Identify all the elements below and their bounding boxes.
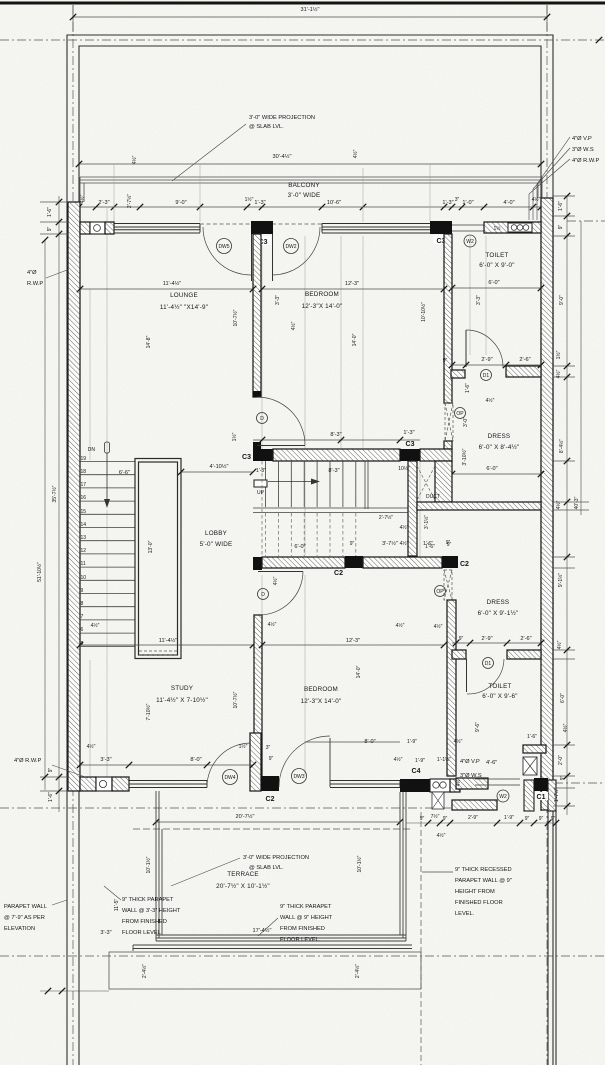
svg-text:W2: W2 <box>499 794 507 800</box>
svg-text:D: D <box>261 592 265 598</box>
svg-text:3'-0" WIDE PROJECTION: 3'-0" WIDE PROJECTION <box>243 855 309 861</box>
svg-text:D1: D1 <box>485 661 492 667</box>
svg-text:TERRACE: TERRACE <box>227 871 259 878</box>
left exterior wall <box>68 202 80 791</box>
column C3 (top toilet) <box>430 221 452 234</box>
svg-text:6'-0" X 8'-4½": 6'-0" X 8'-4½" <box>479 443 520 451</box>
heavy top border line <box>0 2 605 5</box>
wall bedroom1/toilet1 divider <box>444 234 452 403</box>
parapet wall west <box>133 791 412 951</box>
svg-text:14'-0": 14'-0" <box>352 333 358 346</box>
svg-text:9: 9 <box>81 588 84 594</box>
svg-text:8: 8 <box>81 601 84 607</box>
svg-text:4½": 4½" <box>394 756 403 763</box>
toilet1 north wall with vent fixtures <box>484 222 541 233</box>
svg-text:FINISHED FLOOR: FINISHED FLOOR <box>455 900 503 906</box>
svg-text:STUDY: STUDY <box>171 685 194 692</box>
dimension 30'-4 1/2" <box>79 163 541 165</box>
svg-text:1'-3": 1'-3" <box>403 430 414 436</box>
svg-text:DRESS: DRESS <box>488 433 511 440</box>
svg-text:12: 12 <box>81 548 87 554</box>
svg-text:17: 17 <box>81 482 87 488</box>
svg-text:6'-0" X 9'-0": 6'-0" X 9'-0" <box>479 262 514 269</box>
wall below OP <box>444 441 452 449</box>
svg-text:4½": 4½" <box>131 155 138 164</box>
svg-text:3'-1½": 3'-1½" <box>423 515 430 529</box>
svg-text:2'-7½": 2'-7½" <box>379 514 393 521</box>
svg-text:BALCONY: BALCONY <box>288 182 320 189</box>
svg-text:4"Ø: 4"Ø <box>27 270 37 276</box>
svg-text:OP: OP <box>436 589 444 595</box>
svg-text:DRESS: DRESS <box>487 599 510 606</box>
svg-text:C1: C1 <box>537 794 546 801</box>
svg-text:3'-3": 3'-3" <box>100 930 111 936</box>
svg-text:4½": 4½" <box>437 832 446 839</box>
svg-text:51'-10½": 51'-10½" <box>36 562 43 582</box>
svg-text:12'-3"X 14'-0": 12'-3"X 14'-0" <box>301 698 342 705</box>
dimension 31'-1 1/2" top <box>73 5 547 32</box>
svg-text:ELEVATION: ELEVATION <box>4 926 35 932</box>
svg-text:10: 10 <box>81 575 87 581</box>
svg-text:2'-6": 2'-6" <box>520 636 531 642</box>
column C2 (east) <box>442 556 458 568</box>
svg-text:4"Ø R.W.P: 4"Ø R.W.P <box>14 758 42 764</box>
svg-text:10'-1½": 10'-1½" <box>145 856 152 873</box>
svg-text:9": 9" <box>446 540 451 546</box>
svg-text:3'-0" WIDE: 3'-0" WIDE <box>288 192 321 199</box>
svg-text:15: 15 <box>81 509 87 515</box>
wall below door (lobby/bedroom2) <box>254 615 262 777</box>
light extension lines <box>90 164 486 790</box>
svg-text:9": 9" <box>443 358 448 364</box>
svg-text:LEVEL.: LEVEL. <box>455 911 475 917</box>
opening OP dress2 <box>444 570 452 600</box>
window bedroom2 <box>330 781 400 788</box>
svg-text:3": 3" <box>455 197 460 203</box>
fixture box <box>96 777 112 791</box>
svg-text:6'-0": 6'-0" <box>488 280 499 286</box>
svg-text:14'-8": 14'-8" <box>146 335 152 348</box>
svg-text:1'-6": 1'-6" <box>48 792 54 802</box>
svg-text:8'-3": 8'-3" <box>328 468 339 474</box>
svg-text:1'-9": 1'-9" <box>407 739 417 745</box>
top wall segment left <box>80 222 90 234</box>
svg-text:20'-7½": 20'-7½" <box>236 813 255 820</box>
svg-text:4½": 4½" <box>400 540 409 547</box>
wall lounge/bedroom divider <box>253 234 261 397</box>
svg-text:C3: C3 <box>406 441 415 448</box>
svg-text:13'-0": 13'-0" <box>148 540 154 553</box>
landing <box>253 507 408 509</box>
svg-text:3'-0" WIDE PROJECTION: 3'-0" WIDE PROJECTION <box>249 115 315 121</box>
svg-text:3'-10½": 3'-10½" <box>461 448 468 465</box>
balcony slab edge lines <box>80 177 542 202</box>
svg-text:9": 9" <box>459 636 464 642</box>
svg-text:DUCT: DUCT <box>426 494 440 500</box>
svg-text:1'-6": 1'-6" <box>47 207 53 217</box>
svg-text:16: 16 <box>81 495 87 501</box>
svg-text:12'-3": 12'-3" <box>346 638 360 644</box>
svg-text:4½": 4½" <box>562 723 569 732</box>
svg-text:4½": 4½" <box>434 623 443 630</box>
bottom slab rectangle <box>109 952 421 989</box>
fixture box with circles <box>430 779 450 792</box>
svg-text:W2: W2 <box>466 239 474 245</box>
svg-text:2'-9": 2'-9" <box>468 815 478 821</box>
svg-text:2'-3": 2'-3" <box>98 200 109 206</box>
notes terrace <box>104 886 121 900</box>
svg-text:7½": 7½" <box>431 813 440 820</box>
svg-text:12'-3": 12'-3" <box>345 281 359 287</box>
column C1 <box>524 780 534 811</box>
column C3 (stair) <box>253 449 273 461</box>
svg-text:1'-6": 1'-6" <box>423 541 433 547</box>
toilet2 east jog wall <box>523 745 546 753</box>
svg-text:1'-6": 1'-6" <box>527 734 537 740</box>
svg-text:11'-5": 11'-5" <box>114 899 120 912</box>
column C2 bottom <box>261 776 279 791</box>
svg-text:9": 9" <box>350 541 355 547</box>
svg-text:8'-0": 8'-0" <box>364 739 375 745</box>
svg-text:D: D <box>260 416 264 422</box>
wall dress2/toilet2 west <box>447 600 456 776</box>
door DW2 tag <box>284 239 299 254</box>
svg-text:11'-4½" "X14'-9": 11'-4½" "X14'-9" <box>160 303 208 311</box>
svg-text:8'-4½": 8'-4½" <box>558 439 565 453</box>
dim ticks bottom left slab <box>40 990 109 992</box>
svg-text:4½": 4½" <box>486 397 495 404</box>
toilet1 door dims <box>452 364 541 366</box>
svg-text:3'-3": 3'-3" <box>476 295 482 305</box>
svg-text:FLOOR LEVEL.: FLOOR LEVEL. <box>280 937 321 943</box>
svg-text:4"Ø R.W.P: 4"Ø R.W.P <box>572 158 600 164</box>
svg-text:4½": 4½" <box>87 743 96 750</box>
svg-text:1'-6": 1'-6" <box>465 383 471 393</box>
svg-text:PARAPET WALL: PARAPET WALL <box>4 904 47 910</box>
svg-text:4"Ø V.P: 4"Ø V.P <box>572 136 592 142</box>
column C2 <box>345 556 363 568</box>
svg-text:LOBBY: LOBBY <box>205 530 228 537</box>
svg-text:9'-0": 9'-0" <box>175 200 186 206</box>
svg-text:18: 18 <box>81 469 87 475</box>
svg-text:2'-7½": 2'-7½" <box>126 194 133 208</box>
svg-text:8'-0": 8'-0" <box>190 757 201 763</box>
dim 8'-3" above band <box>253 439 420 441</box>
svg-text:1'-7½": 1'-7½" <box>553 788 560 802</box>
lower dashed flight <box>262 461 356 556</box>
svg-text:@ 7'-9" AS PER: @ 7'-9" AS PER <box>4 915 45 921</box>
svg-text:1½: 1½ <box>494 225 502 232</box>
wall lobby north <box>273 449 400 461</box>
svg-text:6: 6 <box>81 627 84 633</box>
svg-text:2'-4½": 2'-4½" <box>354 964 361 978</box>
svg-text:DN: DN <box>88 447 96 453</box>
svg-text:9": 9" <box>551 816 556 822</box>
svg-text:TOILET: TOILET <box>488 683 511 690</box>
svg-text:1'-9": 1'-9" <box>504 815 514 821</box>
svg-text:LOUNGE: LOUNGE <box>170 292 198 299</box>
svg-text:9": 9" <box>420 816 425 822</box>
svg-text:2'-0": 2'-0" <box>558 755 564 765</box>
stair tread numbers <box>81 456 87 647</box>
svg-text:6'-0" X 9'-6": 6'-0" X 9'-6" <box>482 693 517 700</box>
left margin chain <box>40 196 68 812</box>
svg-text:9'-1½": 9'-1½" <box>557 573 564 587</box>
svg-text:BEDROOM: BEDROOM <box>304 686 338 693</box>
svg-text:11'-4½": 11'-4½" <box>163 280 182 287</box>
svg-text:1'-3": 1'-3" <box>442 200 453 206</box>
svg-text:30'-4½": 30'-4½" <box>273 153 292 160</box>
svg-text:FROM FINISHED: FROM FINISHED <box>122 919 167 925</box>
window W2 tag <box>464 235 476 247</box>
recessed parapet verticals bottom right <box>420 812 422 1065</box>
svg-text:4½": 4½" <box>91 622 100 629</box>
svg-text:DW3: DW3 <box>293 774 304 780</box>
duct dashed <box>417 466 435 500</box>
wall lobby east / duct <box>408 461 417 556</box>
svg-text:FLOOR LEVEL: FLOOR LEVEL <box>122 930 161 936</box>
UP flight treads <box>266 461 369 509</box>
svg-text:3"Ø W.S: 3"Ø W.S <box>572 147 594 153</box>
svg-text:11: 11 <box>81 561 86 567</box>
door DW3 arc + leaf <box>279 736 330 787</box>
svg-text:6'-0": 6'-0" <box>294 544 305 550</box>
svg-text:2'-9": 2'-9" <box>481 357 492 363</box>
svg-text:C3: C3 <box>242 454 251 461</box>
wall bedroom2 north <box>262 557 345 568</box>
door DW4 arc <box>207 743 251 787</box>
stair well <box>135 459 181 659</box>
recessed band below <box>452 800 497 810</box>
dim 20'-7 1/2" <box>156 821 400 823</box>
svg-text:7: 7 <box>81 614 84 620</box>
svg-text:4½": 4½" <box>555 369 562 378</box>
svg-text:9": 9" <box>443 816 448 822</box>
svg-text:14: 14 <box>81 522 87 528</box>
svg-text:4"Ø V.P: 4"Ø V.P <box>460 759 480 765</box>
column C4 <box>400 779 430 792</box>
svg-text:10'-7½": 10'-7½" <box>232 691 239 708</box>
svg-text:WALL @ 9" HEIGHT: WALL @ 9" HEIGHT <box>280 915 333 921</box>
door D (lounge) leaf + arc <box>253 442 261 449</box>
svg-text:TOILET: TOILET <box>485 252 508 259</box>
bottom-left corner wall <box>80 777 96 791</box>
svg-text:9'-6": 9'-6" <box>475 722 481 732</box>
svg-text:HEIGHT FROM: HEIGHT FROM <box>455 889 495 895</box>
svg-text:14'-0": 14'-0" <box>356 665 362 678</box>
svg-text:3": 3" <box>266 745 271 751</box>
svg-text:8'-3": 8'-3" <box>330 432 341 438</box>
toilet2 south band <box>456 778 488 789</box>
svg-text:11'-4½": 11'-4½" <box>159 637 178 644</box>
svg-text:@ SLAB LVL.: @ SLAB LVL. <box>249 124 284 130</box>
svg-text:4½": 4½" <box>400 524 409 531</box>
svg-text:9" THICK PARAPET: 9" THICK PARAPET <box>280 904 332 910</box>
svg-text:6'-0": 6'-0" <box>486 466 497 472</box>
svg-text:3'-3": 3'-3" <box>275 295 281 305</box>
svg-text:UP: UP <box>257 490 265 496</box>
door D bedroom2 leaf + arc <box>258 571 303 573</box>
svg-text:6'-0" X 9'-1½": 6'-0" X 9'-1½" <box>478 609 519 617</box>
svg-text:4½": 4½" <box>532 196 541 203</box>
svg-text:9": 9" <box>525 816 530 822</box>
shaft box with X <box>523 757 537 775</box>
stair treads (left flight) <box>80 462 135 647</box>
svg-text:4½": 4½" <box>396 622 405 629</box>
svg-text:3"Ø W.S: 3"Ø W.S <box>460 773 482 779</box>
svg-text:1'-0": 1'-0" <box>462 200 473 206</box>
toilet2 north wall + door D1 <box>452 650 466 659</box>
top wall fixture box <box>90 222 105 234</box>
svg-text:4'-6": 4'-6" <box>486 760 497 766</box>
wall <box>363 557 442 568</box>
svg-text:OP: OP <box>456 411 464 417</box>
column C3 (top-left of bedroom) <box>251 221 273 234</box>
svg-text:DW5: DW5 <box>218 244 229 250</box>
wall stub study east <box>250 733 261 791</box>
svg-text:4½": 4½" <box>352 149 359 158</box>
svg-text:1½": 1½" <box>239 743 248 750</box>
svg-text:10'-7½": 10'-7½" <box>232 309 239 326</box>
svg-text:BEDROOM: BEDROOM <box>305 291 339 298</box>
svg-text:4½": 4½" <box>555 500 562 509</box>
svg-text:PARAPET WALL @ 9": PARAPET WALL @ 9" <box>455 878 512 884</box>
svg-text:17'-4½": 17'-4½" <box>253 927 272 934</box>
terrace north dashed <box>133 828 412 830</box>
svg-text:6'-0": 6'-0" <box>560 693 566 703</box>
wall duct top <box>420 449 452 461</box>
svg-text:@ SLAB LVL.: @ SLAB LVL. <box>249 865 284 871</box>
svg-text:7'-10½": 7'-10½" <box>145 703 152 720</box>
window W top-left 9'-0" <box>114 224 200 234</box>
svg-text:11'-4½" X 7-10½": 11'-4½" X 7-10½" <box>156 696 208 704</box>
right margin chain <box>553 196 589 815</box>
svg-text:19: 19 <box>81 456 87 462</box>
svg-text:C4: C4 <box>412 768 421 775</box>
svg-text:13: 13 <box>81 535 87 541</box>
door DW5 tag <box>217 239 232 254</box>
svg-text:9": 9" <box>48 768 54 773</box>
svg-text:1½": 1½" <box>555 350 562 359</box>
svg-text:4'-10½": 4'-10½" <box>210 463 229 470</box>
svg-text:10'-6": 10'-6" <box>327 200 341 206</box>
opening OP dress1 (dashed) <box>445 403 453 441</box>
door opening dashed (top) <box>200 223 322 225</box>
bedroom2 dim 12'-3" <box>262 644 444 646</box>
svg-text:DW2: DW2 <box>285 244 296 250</box>
svg-text:1½": 1½" <box>245 196 254 203</box>
svg-text:3'-0": 3'-0" <box>463 417 469 427</box>
svg-text:C2: C2 <box>460 561 469 568</box>
svg-text:FROM FINISHED: FROM FINISHED <box>280 926 325 932</box>
svg-text:20'-7½" X 10'-1½": 20'-7½" X 10'-1½" <box>216 882 270 890</box>
door DW5 leaf and arc <box>251 234 253 281</box>
right exterior wall <box>541 198 553 810</box>
svg-text:1'-1½": 1'-1½" <box>437 756 451 763</box>
wall segment <box>450 779 460 792</box>
svg-text:9": 9" <box>560 776 566 781</box>
svg-text:9'-0": 9'-0" <box>559 295 565 305</box>
W2 opening lower <box>475 779 520 785</box>
svg-text:C2: C2 <box>334 570 343 577</box>
svg-text:1'-3": 1'-3" <box>256 468 266 474</box>
svg-text:4'-0": 4'-0" <box>503 200 514 206</box>
plot boundary wall double lines <box>67 35 556 1065</box>
svg-text:5'-0" WIDE: 5'-0" WIDE <box>200 541 233 548</box>
toilet1 south wall + door D1 <box>451 370 465 378</box>
window study 8'-0" <box>129 781 207 788</box>
svg-text:6'-6": 6'-6" <box>119 470 130 476</box>
dim 11'-4 1/2" stair bottom <box>80 644 253 646</box>
lounge/bedroom dims <box>80 288 253 290</box>
dim 4'-10 1/2" lobby <box>181 471 253 473</box>
note projection <box>171 858 240 886</box>
door DW2 leaf and arc <box>272 234 274 281</box>
svg-text:DW4: DW4 <box>224 775 235 781</box>
svg-text:4½": 4½" <box>272 576 279 585</box>
wall dress1 south <box>417 502 541 510</box>
svg-text:1'-3": 1'-3" <box>254 200 265 206</box>
svg-text:9" THICK RECESSED: 9" THICK RECESSED <box>455 867 512 873</box>
svg-text:C2: C2 <box>266 796 275 803</box>
svg-text:31'-1½": 31'-1½" <box>301 6 320 13</box>
svg-text:4½": 4½" <box>556 640 563 649</box>
svg-text:40'-3": 40'-3" <box>574 496 580 509</box>
svg-text:1½": 1½" <box>231 432 238 441</box>
svg-text:9": 9" <box>539 816 544 822</box>
bottom dim row <box>80 764 253 766</box>
svg-text:10'-10½": 10'-10½" <box>420 302 427 322</box>
svg-text:35'-7½": 35'-7½" <box>51 485 58 502</box>
svg-text:3'-3": 3'-3" <box>100 757 111 763</box>
svg-text:9": 9" <box>558 225 564 230</box>
note: 3'-0" wide projection @ slab lvl (top) <box>172 124 246 181</box>
X box below <box>432 792 444 809</box>
svg-text:1'-6": 1'-6" <box>558 201 564 211</box>
svg-text:4½": 4½" <box>290 321 297 330</box>
svg-text:1'-9": 1'-9" <box>415 758 425 764</box>
svg-text:2'-4½": 2'-4½" <box>141 964 148 978</box>
svg-text:4½": 4½" <box>455 777 462 786</box>
window top 10'-6" <box>322 224 430 234</box>
svg-text:2'-9": 2'-9" <box>481 636 492 642</box>
opening W2 (toilet window) <box>452 225 484 231</box>
svg-text:9" THICK PARAPET: 9" THICK PARAPET <box>122 897 174 903</box>
svg-text:D1: D1 <box>483 373 490 379</box>
svg-text:3'-7½": 3'-7½" <box>382 540 398 547</box>
svg-text:10'-1½": 10'-1½" <box>356 855 363 872</box>
column C3 (duct) <box>400 449 420 461</box>
door D (bedroom2) hinge cap <box>253 557 262 570</box>
svg-text:4½": 4½" <box>268 621 277 628</box>
dimension row right of terrace <box>406 822 556 824</box>
svg-text:2'-6": 2'-6" <box>519 357 530 363</box>
svg-text:WALL @ 3'-3" HEIGHT: WALL @ 3'-3" HEIGHT <box>122 908 181 914</box>
svg-text:9": 9" <box>269 756 274 762</box>
svg-text:10½": 10½" <box>398 465 410 472</box>
svg-text:9": 9" <box>47 227 53 232</box>
svg-text:12'-3"X 14'-0": 12'-3"X 14'-0" <box>302 303 343 310</box>
svg-text:R.W.P: R.W.P <box>27 281 43 287</box>
svg-text:4½": 4½" <box>454 738 463 745</box>
balcony dimension row <box>79 206 541 208</box>
